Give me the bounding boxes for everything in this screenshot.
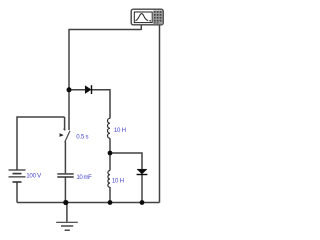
diode D2 cathode bar xyxy=(137,174,148,176)
oscilloscope screen xyxy=(134,12,152,23)
switch S1 blade xyxy=(65,131,70,143)
wire main left vertical xyxy=(68,29,70,130)
wire scope left pin xyxy=(140,25,142,30)
svg-text:0.5 s: 0.5 s xyxy=(76,133,88,140)
wire switch left contact xyxy=(64,117,66,130)
ground stem xyxy=(66,203,68,222)
oscilloscope knob panel xyxy=(153,10,163,24)
node junction dot B xyxy=(108,151,113,156)
diode D1 cathode bar xyxy=(91,85,93,94)
wire between junction and L2 xyxy=(109,153,111,171)
svg-text:10 mF: 10 mF xyxy=(76,174,92,181)
svg-text:100 V: 100 V xyxy=(26,173,42,180)
diode D1 triangle xyxy=(85,86,91,94)
wire diode2 cathode down xyxy=(141,175,143,203)
wire diode1 cathode to corner xyxy=(92,90,110,119)
node junction dot D xyxy=(140,200,145,205)
ground symbol xyxy=(56,222,78,230)
wire top horizontal xyxy=(69,29,141,31)
wire below L2 xyxy=(109,187,111,203)
wire between L1 and junction xyxy=(109,138,111,153)
diode D2 triangle xyxy=(137,169,147,174)
switch S1 left contact tick xyxy=(64,129,66,131)
wire battery top up and to switch xyxy=(17,117,65,170)
inductor L2 coil xyxy=(108,171,110,188)
wire bottom bus xyxy=(17,202,160,204)
oscilloscope screen dot xyxy=(149,20,151,22)
oscilloscope waveform xyxy=(135,14,148,21)
oscilloscope U1 body xyxy=(131,9,163,25)
capacitor C1 plates xyxy=(57,174,73,177)
inductor L1 coil xyxy=(108,118,111,138)
battery V1 plates xyxy=(9,170,26,182)
wire switch to capacitor xyxy=(64,141,66,173)
wire diode1 anode xyxy=(69,89,86,91)
switch S1 arrow xyxy=(60,133,64,137)
wire capacitor to bottom bus xyxy=(64,178,66,203)
wire junction to diode2 branch xyxy=(110,153,142,169)
svg-text:10 H: 10 H xyxy=(114,127,126,134)
wire battery bottom down xyxy=(16,182,18,203)
wire scope right pin down right side xyxy=(159,25,161,203)
svg-text:10 H: 10 H xyxy=(112,177,124,184)
node junction dot E (ground node) xyxy=(63,200,68,205)
node junction dot C xyxy=(108,200,113,205)
node junction dot A xyxy=(67,87,72,92)
